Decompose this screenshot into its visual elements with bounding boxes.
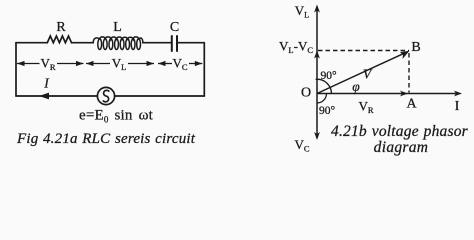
wire right vertical — [203, 43, 205, 96]
VC arrow — [158, 61, 202, 66]
vector V — [317, 52, 406, 93]
arc 90 upper — [316, 79, 332, 93]
inductor L loops — [93, 37, 143, 50]
svg-text:4.21b voltage phasor: 4.21b voltage phasor — [331, 123, 469, 140]
wire top segment 3 — [143, 42, 171, 44]
svg-text:L: L — [113, 20, 122, 35]
svg-text:C: C — [170, 20, 179, 35]
wire top segment 1 — [16, 42, 47, 44]
arrowhead I right — [454, 91, 462, 97]
wire bottom — [16, 95, 204, 97]
wire left vertical — [15, 43, 17, 96]
capacitor C plates — [172, 36, 177, 51]
svg-text:Fig 4.21a RLC sereis circuit: Fig 4.21a RLC sereis circuit — [16, 131, 196, 147]
AC source — [97, 87, 114, 104]
current arrow on bottom wire — [39, 93, 49, 100]
svg-text:diagram: diagram — [374, 139, 429, 156]
dashed line B to A — [408, 53, 410, 93]
arc 90 lower — [317, 94, 327, 104]
svg-text:A: A — [406, 97, 417, 112]
wire top segment 4 — [178, 42, 205, 44]
phasor vertical axis — [316, 8, 318, 138]
arrowhead VC down — [314, 132, 320, 140]
phasor horizontal axis — [317, 93, 459, 95]
svg-text:90°: 90° — [319, 105, 336, 117]
svg-text:B: B — [411, 40, 420, 55]
resistor R — [47, 36, 71, 43]
arrowhead VL-VC tip — [314, 51, 320, 59]
arrowhead V at B — [400, 51, 410, 59]
svg-text:e=E0 sin ωt: e=E0 sin ωt — [79, 107, 154, 124]
svg-text:I: I — [455, 98, 460, 113]
svg-text:R: R — [56, 20, 66, 35]
svg-text:90°: 90° — [320, 70, 337, 82]
VR arrow — [17, 61, 84, 66]
svg-text:φ: φ — [352, 79, 360, 94]
VL arrow — [86, 61, 154, 66]
wire top segment 2 — [72, 42, 94, 44]
svg-text:O: O — [301, 86, 311, 101]
arrowhead VL up — [314, 5, 320, 13]
arrowhead VR at A — [400, 91, 408, 97]
dashed line VL-VC to B — [318, 50, 409, 52]
